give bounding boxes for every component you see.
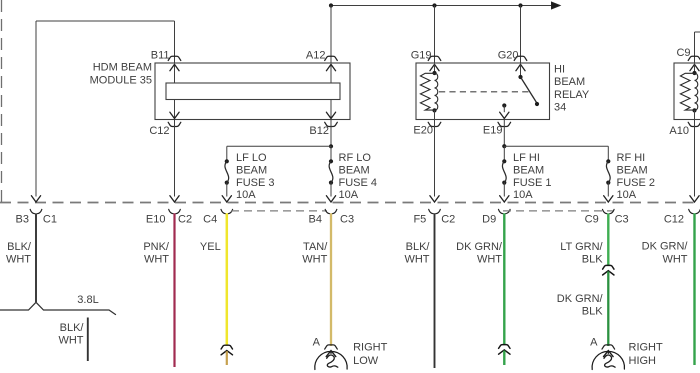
relay coil bbox=[432, 71, 436, 75]
svg-text:C12: C12 bbox=[149, 125, 169, 137]
svg-text:B11: B11 bbox=[151, 49, 170, 61]
svg-text:C4: C4 bbox=[203, 213, 217, 225]
fuse 3 LF LO BEAM 10A bbox=[225, 159, 229, 163]
svg-text:RIGHT: RIGHT bbox=[353, 341, 388, 353]
svg-text:WHT: WHT bbox=[404, 254, 429, 266]
wire LT GRN/BLK bbox=[607, 213, 609, 265]
wire TAN/WHT bbox=[330, 213, 332, 346]
svg-text:FUSE 3: FUSE 3 bbox=[236, 177, 275, 189]
svg-text:BLK/: BLK/ bbox=[7, 241, 32, 253]
svg-text:C2: C2 bbox=[178, 213, 192, 225]
svg-text:DK GRN/: DK GRN/ bbox=[456, 241, 503, 253]
svg-text:FUSE 1: FUSE 1 bbox=[513, 177, 552, 189]
pin A12 of module bbox=[325, 56, 338, 60]
svg-text:BEAM: BEAM bbox=[339, 165, 370, 177]
sub-connector dashed link D9 to C9 bbox=[503, 210, 613, 212]
pin C12 of module bbox=[168, 122, 181, 126]
inline connector on LT GRN wire bbox=[603, 265, 614, 269]
svg-text:FUSE 4: FUSE 4 bbox=[339, 177, 378, 189]
connector B4/C3 bbox=[325, 209, 337, 213]
wire YEL bbox=[226, 213, 229, 344]
top power rail wire with arrow bbox=[331, 5, 553, 7]
right module box (cut off) bbox=[674, 63, 700, 120]
svg-text:BEAM: BEAM bbox=[236, 165, 267, 177]
right module coil bbox=[692, 71, 696, 75]
wire from module pin B11 up and left to connector B3/C1 bbox=[36, 20, 175, 22]
svg-text:3.8L: 3.8L bbox=[77, 294, 98, 306]
svg-text:C9: C9 bbox=[585, 213, 599, 225]
wire DK GRN/WHT right bbox=[693, 213, 695, 365]
svg-text:HI: HI bbox=[554, 63, 565, 75]
connector C4 bbox=[221, 209, 233, 213]
svg-text:C12: C12 bbox=[664, 213, 684, 225]
svg-text:E19: E19 bbox=[483, 125, 503, 137]
svg-text:B3: B3 bbox=[16, 213, 29, 225]
svg-text:WHT: WHT bbox=[302, 254, 327, 266]
svg-text:B4: B4 bbox=[309, 213, 322, 225]
svg-text:BLK/: BLK/ bbox=[60, 322, 85, 334]
connector E10/C2 bbox=[169, 209, 181, 213]
fuse 2 RF HI BEAM 10A bbox=[606, 159, 610, 163]
wire BLK/WHT below B3/C1 bbox=[35, 213, 37, 302]
svg-text:TAN/: TAN/ bbox=[303, 241, 328, 253]
green continuation below inline connector bbox=[503, 351, 505, 365]
svg-text:WHT: WHT bbox=[477, 254, 502, 266]
svg-text:DK GRN/: DK GRN/ bbox=[642, 240, 689, 252]
pin B12 of module bbox=[325, 122, 338, 126]
svg-text:10A: 10A bbox=[513, 189, 533, 201]
wire rail to HDM module pin A12 bbox=[330, 6, 332, 64]
relay switch blade bbox=[521, 77, 537, 103]
fuse 1 LF HI BEAM 10A bbox=[503, 146, 505, 161]
connector F5/C2 bbox=[429, 209, 441, 213]
svg-text:10A: 10A bbox=[339, 189, 359, 201]
svg-text:BLK/: BLK/ bbox=[406, 241, 431, 253]
pin B11 of module bbox=[168, 56, 181, 60]
svg-text:G20: G20 bbox=[498, 49, 519, 61]
junction node at G20 rail tap bbox=[518, 3, 522, 7]
svg-text:BEAM: BEAM bbox=[554, 76, 585, 88]
svg-text:B12: B12 bbox=[309, 125, 329, 137]
svg-text:LF HI: LF HI bbox=[513, 152, 540, 164]
svg-text:WHT: WHT bbox=[144, 254, 169, 266]
inline connector on YEL wire bbox=[221, 345, 232, 349]
connector B3/C1 bbox=[30, 209, 42, 213]
svg-text:PNK/: PNK/ bbox=[143, 241, 170, 253]
svg-text:LOW: LOW bbox=[353, 355, 379, 367]
svg-text:LF LO: LF LO bbox=[236, 152, 267, 164]
connector C12 bbox=[689, 209, 700, 213]
svg-text:YEL: YEL bbox=[200, 241, 221, 253]
svg-text:HDM BEAM: HDM BEAM bbox=[93, 62, 152, 74]
wire rail down to relay pin G19 bbox=[434, 6, 436, 64]
relay switch output contact to E19 bbox=[502, 103, 506, 107]
svg-text:A: A bbox=[590, 336, 598, 348]
inline connector on DK GRN/WHT wire bbox=[499, 345, 510, 349]
wire relay E19 down to junction bbox=[503, 120, 505, 147]
svg-text:C3: C3 bbox=[615, 213, 629, 225]
connector D9 bbox=[499, 209, 511, 213]
svg-text:BLK: BLK bbox=[582, 254, 603, 266]
svg-text:A10: A10 bbox=[669, 125, 689, 137]
svg-text:C2: C2 bbox=[441, 213, 455, 225]
fuse 4 RF LO BEAM 10A bbox=[329, 159, 333, 163]
left page-border dashed line bbox=[1, 0, 3, 203]
svg-text:E20: E20 bbox=[413, 125, 433, 137]
module inner bar bbox=[166, 83, 340, 100]
wire A10 down to connector C12 bbox=[694, 120, 696, 197]
relay pin E20 bbox=[434, 110, 436, 119]
svg-text:D9: D9 bbox=[482, 213, 496, 225]
svg-text:G19: G19 bbox=[411, 49, 432, 61]
connector C9/C3 bbox=[603, 209, 615, 213]
wire B12 junction down through fuse 4 bbox=[330, 146, 332, 161]
wire PNK/WHT bbox=[173, 213, 175, 367]
svg-text:F5: F5 bbox=[413, 213, 426, 225]
down arrow at connector C1 bbox=[31, 196, 40, 202]
svg-text:WHT: WHT bbox=[58, 335, 83, 347]
junction node at G19 rail tap bbox=[432, 3, 436, 7]
svg-text:DK GRN/: DK GRN/ bbox=[557, 293, 604, 305]
wire DK GRN/BLK bbox=[607, 271, 609, 346]
svg-text:C9: C9 bbox=[676, 47, 690, 59]
svg-text:34: 34 bbox=[554, 102, 566, 114]
svg-text:A12: A12 bbox=[306, 49, 326, 61]
svg-text:WHT: WHT bbox=[662, 254, 687, 266]
relay pin E19 bbox=[498, 122, 511, 126]
wire BLK/WHT center bbox=[434, 213, 436, 368]
svg-text:E10: E10 bbox=[146, 213, 166, 225]
wire relay E20 down to connector C2 bbox=[434, 120, 436, 197]
svg-text:LT GRN/: LT GRN/ bbox=[560, 241, 603, 253]
wire branch to RF HI fuse bbox=[504, 145, 608, 147]
svg-text:RF LO: RF LO bbox=[339, 152, 372, 164]
sub-connector dashed link C4 to B4 bbox=[231, 210, 327, 212]
svg-text:RIGHT: RIGHT bbox=[629, 341, 664, 353]
junction node feeding hi-beam fuses bbox=[502, 144, 506, 148]
svg-text:RELAY: RELAY bbox=[554, 89, 590, 101]
pin A10 of right module bbox=[694, 110, 696, 119]
svg-text:RF HI: RF HI bbox=[617, 152, 646, 164]
wire branch to LF LO fuse bbox=[227, 145, 331, 147]
relay pin G19 bbox=[428, 56, 441, 60]
junction node feeding low-beam fuses bbox=[329, 144, 333, 148]
svg-text:C1: C1 bbox=[43, 213, 57, 225]
svg-text:A: A bbox=[313, 336, 321, 348]
wire module B12 down to junction bbox=[330, 120, 332, 147]
pin C9 of right module bbox=[688, 56, 700, 60]
main harness connector dashed line bbox=[0, 202, 700, 204]
hi beam relay 34 box bbox=[416, 63, 550, 120]
svg-text:HIGH: HIGH bbox=[629, 355, 657, 367]
HDM beam module 35 box bbox=[155, 63, 350, 120]
svg-text:10A: 10A bbox=[236, 189, 256, 201]
relay pin G20 bbox=[514, 56, 527, 60]
relay switch common contact bbox=[518, 75, 522, 79]
svg-text:BEAM: BEAM bbox=[617, 165, 648, 177]
relay actuation dashed link bbox=[439, 91, 529, 93]
wire rail down to relay pin G20 bbox=[520, 6, 522, 64]
tan continuation below inline connector bbox=[226, 351, 228, 365]
wire entering from right edge to pin C9 bbox=[695, 31, 700, 33]
wire module C12 down to connector E10/C2 bbox=[174, 120, 176, 197]
svg-text:C3: C3 bbox=[340, 213, 354, 225]
engine option brace 3.8L bbox=[0, 302, 116, 314]
svg-text:10A: 10A bbox=[617, 189, 637, 201]
svg-text:FUSE 2: FUSE 2 bbox=[617, 177, 656, 189]
svg-text:BEAM: BEAM bbox=[513, 165, 544, 177]
wire DK GRN/WHT bbox=[503, 213, 505, 344]
svg-text:MODULE 35: MODULE 35 bbox=[90, 74, 152, 86]
junction node at A12 rail tap bbox=[329, 3, 333, 7]
3.8L branch wire BLK/WHT bbox=[87, 318, 89, 362]
svg-text:BLK: BLK bbox=[582, 306, 603, 318]
svg-text:WHT: WHT bbox=[6, 254, 31, 266]
